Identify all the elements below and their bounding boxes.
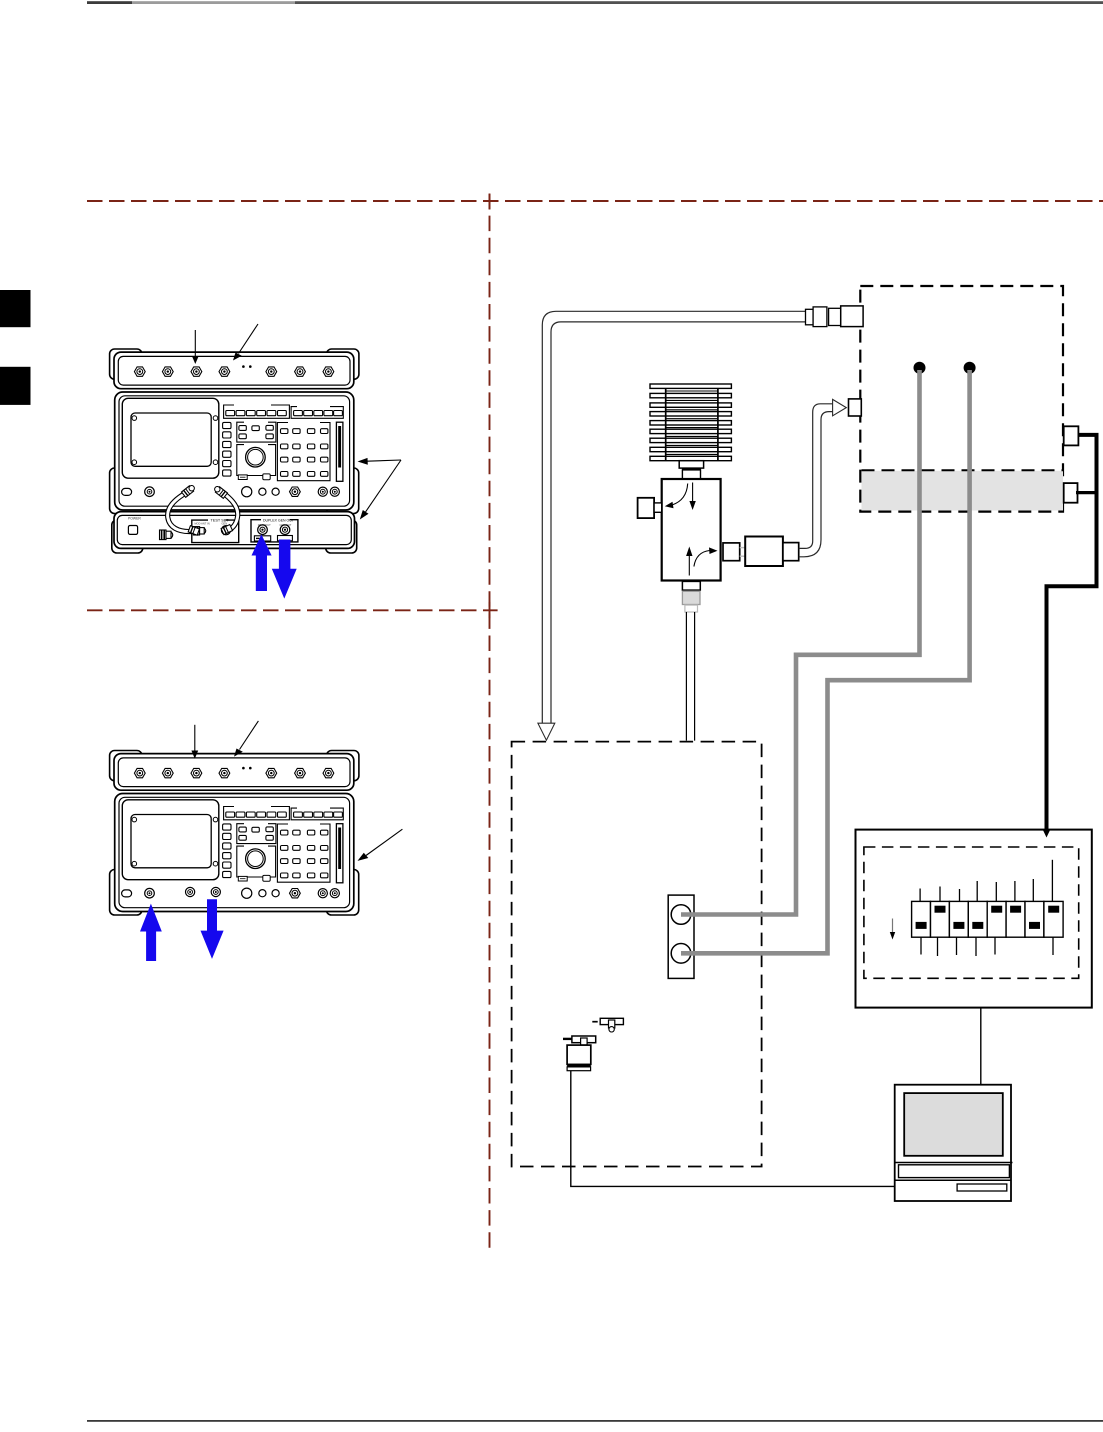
duplex left jack [258,525,268,535]
flow arrow down inside attenuator [689,483,695,511]
fixture block jack upper [671,905,691,925]
cable switch box to computer [980,1008,982,1085]
analyzer 1 blue arrow down [272,540,297,599]
switch select arrow [890,919,895,940]
serial cable fixture to computer [571,1071,895,1187]
svg-text:POWER: POWER [128,516,141,520]
red divider cross tick mid [489,602,491,618]
flow curve arrow to side port [665,484,688,509]
attenuator bottom neck [682,581,700,590]
analyzer 1 callout arrow to slot [358,458,402,465]
inline pad body [745,537,783,567]
duplex plate tick marks [256,537,260,539]
inline pad left cap [723,543,740,561]
test fixture dashed box [512,742,762,1167]
analyzer 2 blue arrow down [201,899,224,959]
fixture coupler component [592,1018,623,1032]
radio accessory connector square lower [1064,483,1078,503]
duplex right jack [280,525,290,535]
interconnect cable 2 [213,485,238,535]
analyzer 1 test-set panel inner [117,515,351,544]
fixture antenna connector component [563,1036,596,1071]
analyzer 1 test-set panel corner ear bottom-left [112,520,143,553]
DIP switch position squares [916,906,1060,929]
audio cable 2 [681,370,970,953]
analyzer 1 callout arrow to test-set corner [360,460,401,520]
red dashed divider horizontal mid-left [87,609,498,611]
DIP switch bank bodies [912,901,1064,937]
black margin tab 2 [0,367,31,405]
battery band dashed top edge [862,469,1064,471]
output tube to radio [799,404,833,557]
cable attenuator to fixture [686,612,694,741]
header rule dark segment [87,1,132,4]
communications analyzer 2 chassis [110,751,359,916]
analyzer 1 test-set panel corner ear bottom-right [326,520,357,553]
antenna cable connector pieces [806,306,864,327]
power button [128,526,137,535]
header rule light segment [132,1,295,4]
audio cable 1 [681,370,920,915]
red divider cross tick top [489,194,491,210]
inline pad right cap [783,543,799,561]
TEST SET box [192,520,239,543]
analyzer 2 callout arrow to slot [358,829,403,861]
analyzer 2 port connector a [186,887,195,896]
flow curve arrow to output [694,547,718,566]
analyzer 1 test-set panel outer [114,512,355,549]
DIP switch bottom leads [921,937,1053,956]
hollow arrow head into test fixture [538,723,555,740]
thick cable arrow into switch box [1043,830,1051,838]
red dashed divider vertical [489,194,491,1252]
duplex small plate left [254,536,270,541]
analyzer 2 port connector b [211,887,220,896]
black margin tab 1 [0,290,31,327]
RF power attenuator heatsink fins [650,384,731,461]
analyzer 1 callout arrow vertical [192,330,199,364]
battery gray band [862,471,1064,511]
attenuator bottom tip [685,605,698,612]
fixture RF connector block [668,895,694,978]
computer body [895,1085,1011,1201]
attenuator neck lower [682,470,700,479]
attenuator body [662,479,721,581]
svg-text:DUPLEX GEN OUT: DUPLEX GEN OUT [263,518,295,522]
svg-text:GEN: GEN [222,522,228,526]
hollow arrow into radio antenna port [833,399,847,415]
heatsink core gap lines [666,391,718,454]
duplex small plate right [278,536,293,541]
antenna cable tube horizontal [542,311,805,723]
computer monitor bottom edge [895,1162,1013,1164]
communications analyzer 1 chassis [110,349,359,514]
attenuator side knob stub [654,503,662,512]
DUPLEX GEN OUT box [251,520,298,542]
heatsink core verticals [666,388,718,460]
spare fuse connector [160,530,173,540]
red dashed divider horizontal top [87,200,1103,202]
radio antenna port square [849,399,862,416]
analyzer 1 callout arrow diagonal [233,324,258,361]
switch box inner dashed panel [864,847,1079,978]
attenuator neck collar [682,468,701,470]
audio cable 2 black probe tip [964,362,976,374]
flow arrow up inside attenuator [686,547,692,576]
attenuator side knob [638,498,655,518]
test set right jack [221,526,230,535]
attenuator bottom gray collar [682,591,700,604]
fixture block jack lower [671,944,691,964]
analyzer 2 callout arrow vertical [191,725,198,759]
analyzer 1 blue arrow up [252,534,272,591]
svg-text:MOD ANT IN: MOD ANT IN [195,522,210,526]
analyzer 2 blue arrow up [140,904,162,961]
computer base top edge [895,1179,1011,1181]
audio cable 1 black probe tip [914,362,926,374]
switch interface box [856,830,1092,1008]
footer rule [87,1420,1103,1422]
analyzer 2 callout arrow diagonal [234,721,258,757]
test set left jack [193,527,205,535]
header rule right segment [295,1,1103,4]
computer base slot [957,1184,1007,1191]
computer screen [904,1093,1003,1156]
radio accessory connector square upper [1064,426,1079,445]
thick cable radio to switch box [1047,435,1097,830]
DIP switch top leads [920,860,1052,902]
attenuator neck upper [679,461,703,468]
computer keyboard band [899,1165,1010,1178]
interconnect cable 1 [168,484,200,535]
radio under test dashed box [860,286,1063,512]
inline pad link lines [740,548,746,557]
